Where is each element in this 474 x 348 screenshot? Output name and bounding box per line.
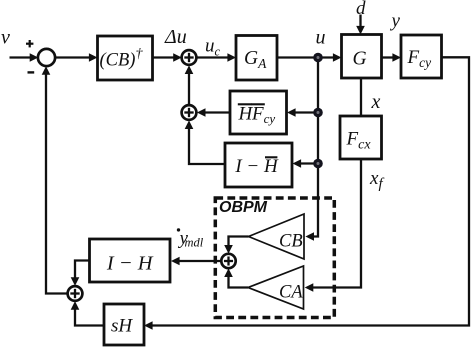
label Delta u (164, 26, 187, 48)
wire G to F_cy (382, 53, 402, 62)
svg-text:I − H: I − H (234, 156, 279, 177)
label u_c (205, 36, 221, 59)
label y (390, 11, 401, 32)
wire I-H to S5 (71, 261, 90, 286)
wire x from G down to F_cx (360, 78, 362, 116)
wire S5 feedback up to S1 (42, 66, 68, 293)
label y_mdl dot (177, 228, 180, 231)
summing junction S2 (182, 50, 197, 65)
wire S3 up to S2 (185, 65, 194, 105)
gain triangle CB (249, 214, 305, 259)
svg-text:Δu: Δu (164, 26, 187, 48)
label y_mdl (178, 228, 204, 250)
wire S1 to (CB)+ block (55, 53, 98, 62)
block I-Hbar (225, 143, 292, 187)
svg-text:OBPM: OBPM (219, 199, 268, 216)
wire node to HbarFbar_cy (287, 108, 318, 117)
wire d into G (356, 15, 365, 35)
block sH (104, 304, 144, 345)
block G_A (236, 36, 277, 81)
node feed HbarFbar_cy (313, 108, 323, 118)
wire nu input to S1 (10, 53, 39, 62)
svg-text:d: d (356, 0, 366, 19)
svg-text:sH: sH (111, 316, 133, 337)
block I-H (90, 239, 171, 282)
svg-text:x: x (371, 91, 381, 113)
dashed box OBPM (215, 198, 334, 318)
summing junction S1 (38, 49, 55, 66)
wire x_f from F_cx down and left into CA (305, 159, 361, 292)
svg-text:u: u (316, 27, 326, 49)
block F_cx (340, 116, 382, 159)
svg-text:mdl: mdl (185, 236, 204, 250)
wire HbarFbar_cy to S3 (197, 108, 230, 117)
label d (356, 0, 366, 19)
svg-text:y: y (390, 11, 401, 32)
wire (CB)+ to S2 (Delta u) (153, 53, 182, 62)
svg-text:CB: CB (279, 232, 303, 252)
node feed I-Hbar (313, 159, 323, 169)
label minus at S1 (28, 71, 35, 73)
block (CB)dagger (98, 36, 153, 80)
wire S2 to G_A (u_c) (196, 53, 236, 62)
svg-text:CA: CA (279, 283, 303, 303)
label u (316, 27, 326, 49)
label x (371, 91, 381, 113)
wire I-Hbar to S3 (185, 120, 225, 164)
label plus at S1 (26, 40, 33, 47)
summing junction S3 (182, 105, 197, 120)
wire G_A to G (u) (277, 53, 342, 62)
wire node to I-Hbar (293, 159, 319, 168)
summing junction S5 (68, 286, 83, 301)
block G (342, 35, 382, 79)
label x_f (369, 168, 384, 192)
wire CB output to S4 (224, 237, 248, 254)
label OBPM (219, 199, 268, 216)
gain triangle CA (248, 266, 304, 309)
wire sH to S5 (71, 301, 104, 325)
block F_cy (401, 35, 442, 78)
svg-text:G: G (353, 49, 367, 70)
wire u node down into CB (305, 58, 318, 241)
svg-text:ν: ν (1, 27, 10, 49)
wire F_cy feedback right side down to sH (144, 57, 469, 330)
node u (313, 53, 323, 63)
label nu (1, 27, 10, 49)
block HbarFbar_cy (230, 91, 287, 134)
wire S4 to I-H (y_mdl) (171, 257, 221, 266)
summing junction S4 (221, 254, 235, 268)
wire CA output to S4 (224, 268, 248, 287)
svg-text:I − H: I − H (106, 253, 154, 275)
